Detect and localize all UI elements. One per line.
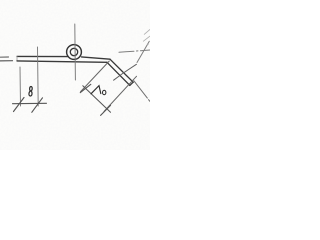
leaf 2 (bent 45°) top-right edge xyxy=(110,59,133,82)
leaf 1 top edge xyxy=(17,55,68,57)
leaf 2 lower-left edge xyxy=(107,62,130,85)
dash-dot centerline D2 (along leaf 2, beyond tip) xyxy=(134,81,150,102)
dimension text 8 (hand-drawn) xyxy=(29,87,32,97)
knuckle outer circle xyxy=(67,45,82,60)
faint corner dot xyxy=(147,43,150,46)
horizontal dash-dot centerline xyxy=(119,50,150,52)
knuckle vertical centerline xyxy=(74,24,77,80)
extension line E1 (from bend) xyxy=(81,61,110,92)
tick slash left xyxy=(14,98,25,112)
extension line E2 (from tip) xyxy=(104,76,137,111)
dimension line (8) xyxy=(13,102,47,104)
extension line V2 (x=38) xyxy=(37,47,40,106)
dash-dot centerline D1 upper part xyxy=(137,41,149,62)
leaf 1 left end cap xyxy=(16,56,18,60)
leaf 1 bottom edge xyxy=(17,61,107,62)
paper grain xyxy=(0,0,1,1)
dimension line (10) at 45° xyxy=(83,86,111,113)
tick slash lower xyxy=(101,105,111,115)
tick slash right xyxy=(32,98,43,113)
leaf 2 end cap xyxy=(130,82,133,85)
break dash top (left edge of leaf 1) xyxy=(0,56,9,58)
paper background xyxy=(0,0,150,150)
leaf 1 top edge, right of knuckle xyxy=(82,57,111,59)
dimension text 0 xyxy=(103,90,106,94)
tick slash upper xyxy=(80,84,91,92)
dimension text 1 (European style) xyxy=(91,86,101,94)
faint corner dash a xyxy=(144,30,150,35)
break dash bottom (left edge of leaf 1) xyxy=(0,60,13,62)
extension line V1 (x=20) xyxy=(19,67,22,106)
centerline D1 crossing leaf 2 xyxy=(114,64,137,80)
knuckle pin inner circle xyxy=(70,48,77,55)
faint corner dash b xyxy=(143,36,149,41)
